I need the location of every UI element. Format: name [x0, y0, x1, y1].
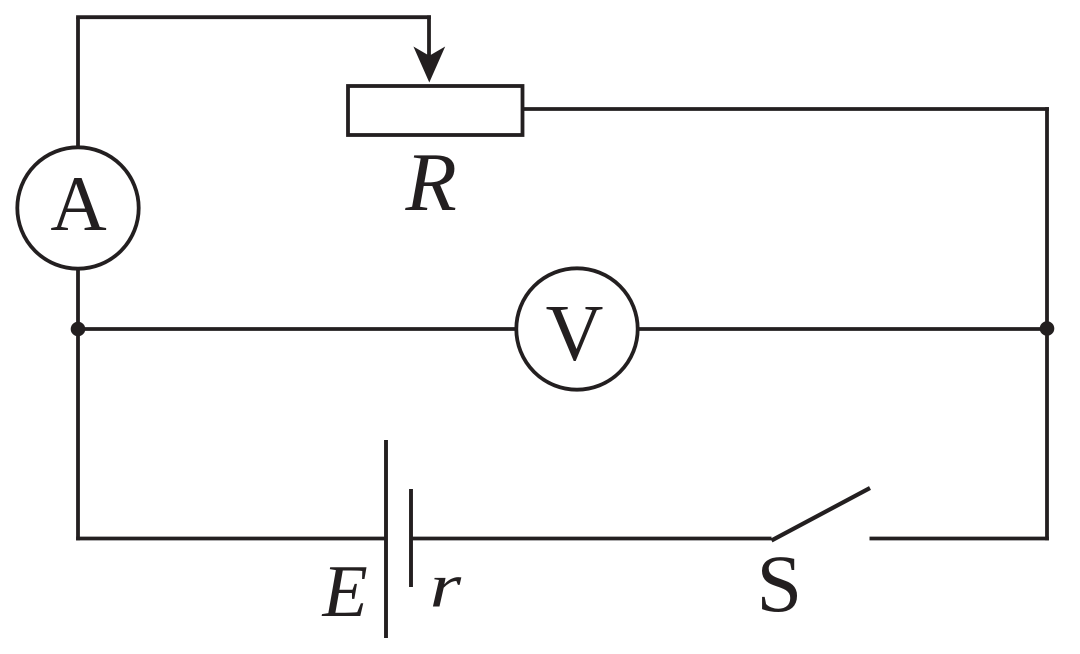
- svg-text:V: V: [546, 290, 604, 378]
- wire: top horizontal rail: [76, 15, 431, 19]
- battery cell r: short plate: [409, 489, 413, 587]
- svg-text:E: E: [322, 551, 368, 633]
- wire: left vertical branch (top rail to bottom rail through ammeter): [76, 17, 80, 540]
- svg-text:S: S: [757, 538, 803, 629]
- wire: middle horizontal rail (voltmeter branch): [78, 327, 1047, 331]
- wire: rheostat wiper arrow shaft: [427, 15, 431, 58]
- svg-text:R: R: [405, 136, 457, 229]
- wire: bottom rail right segment (switch to right rail): [870, 537, 1049, 541]
- voltmeter V: [516, 268, 637, 389]
- battery cell E: long plate: [384, 440, 388, 638]
- ammeter A: [17, 147, 138, 268]
- rheostat wiper arrowhead: [413, 47, 445, 83]
- wire: bottom rail middle segment (battery to switch): [411, 537, 772, 541]
- svg-text:A: A: [50, 160, 106, 247]
- wire: rheostat right terminal to right rail: [523, 107, 1049, 111]
- wire: bottom rail left segment (to battery): [76, 537, 386, 541]
- resistor R (rheostat body): [348, 86, 523, 135]
- node: right junction: [1040, 321, 1055, 336]
- wire: right vertical rail: [1045, 107, 1049, 540]
- switch S blade: [772, 488, 871, 541]
- node: left junction: [71, 322, 86, 337]
- svg-text:r: r: [430, 553, 463, 621]
